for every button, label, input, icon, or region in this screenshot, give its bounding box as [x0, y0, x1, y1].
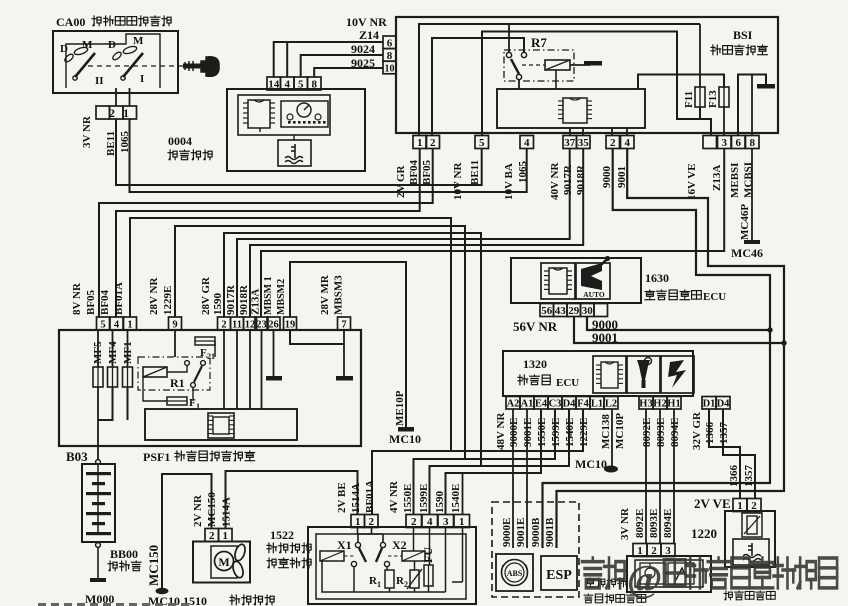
- relay R7 switch contacts: [506, 52, 511, 57]
- svg-text:23: 23: [256, 320, 267, 331]
- wire L2 to MC10 ground: [611, 409, 613, 466]
- svg-text:0004: 0004: [168, 134, 192, 148]
- PSF1 inner module box: [145, 409, 297, 440]
- PSF1 internal ground bar 2: [336, 376, 353, 381]
- wire relay switch to inner module: [518, 80, 520, 90]
- svg-text:F: F: [200, 347, 207, 359]
- svg-text:CA00: CA00: [56, 15, 85, 29]
- MC150 ground dot: [156, 588, 169, 594]
- svg-text:MC138: MC138: [600, 414, 612, 449]
- cluster temperature gauge sub-box: [278, 140, 311, 166]
- ignition switch CA00 box: [53, 31, 178, 93]
- wire H3 8092E to pressure sensor: [645, 409, 647, 544]
- svg-text:AUTO: AUTO: [583, 290, 605, 299]
- svg-text:Z14: Z14: [359, 28, 379, 42]
- svg-text:2V VE: 2V VE: [694, 496, 731, 511]
- svg-text:1514A: 1514A: [350, 483, 362, 513]
- wire BF04 feed inside BSI: [419, 24, 700, 136]
- svg-text:M: M: [133, 35, 144, 47]
- wire BE11 bus: [116, 119, 482, 185]
- svg-text:BB00: BB00: [110, 547, 138, 561]
- wire F11 branch vertical: [699, 24, 701, 87]
- svg-text:28V GR: 28V GR: [200, 276, 212, 315]
- svg-text:48V NR: 48V NR: [495, 412, 507, 450]
- wire R1 area stubs: [167, 365, 187, 372]
- ignition switch inner outline: [66, 34, 160, 88]
- fuse MF4: [108, 367, 118, 387]
- wire H4 staircase: [446, 409, 542, 515]
- svg-text:3V NR: 3V NR: [81, 115, 93, 148]
- svg-text:29: 29: [568, 305, 580, 317]
- battery BB00 box: [82, 464, 115, 542]
- wire 9018R bus: [250, 149, 583, 318]
- X switch top contacts: [355, 542, 360, 547]
- wire ignition box to connector: [115, 88, 117, 106]
- svg-text:R7: R7: [531, 35, 547, 50]
- BSI intelligent control box: [396, 17, 778, 133]
- wire pin9 into R1 area: [174, 330, 176, 357]
- svg-text:56V NR: 56V NR: [513, 319, 558, 334]
- svg-text:1: 1: [459, 516, 465, 528]
- wire MBSM2 to MC10 ground: [290, 262, 406, 427]
- svg-text:R1: R1: [170, 376, 185, 390]
- temp sensor 1220 box: [725, 511, 775, 567]
- wire F21 to switch: [214, 341, 216, 357]
- thermistor symbol box: [742, 513, 762, 537]
- wire MCBSI to MC46 ground: [751, 149, 753, 241]
- label transmission ECU text: [645, 290, 655, 300]
- 1320 injector icon box: [627, 356, 660, 393]
- dash links X1 X2: [344, 555, 355, 557]
- svg-text:9017R: 9017R: [225, 284, 237, 315]
- svg-text:6: 6: [387, 38, 393, 50]
- wire 9000 from transmission ECU: [587, 316, 770, 330]
- cluster pins 14 4 5 8: [267, 77, 281, 90]
- wire pins 2 11 12 23 into inner module: [223, 330, 225, 409]
- fan connector pins 2 1: [205, 529, 219, 542]
- svg-text:3: 3: [721, 137, 727, 149]
- 1630 IC chip symbol: [541, 263, 575, 299]
- svg-text:1357: 1357: [743, 465, 755, 488]
- svg-text:5: 5: [298, 79, 304, 91]
- svg-text:H3: H3: [639, 399, 652, 410]
- pin 6 box: [383, 36, 396, 49]
- svg-text:2: 2: [109, 106, 115, 120]
- wire BE11 feed inside BSI: [482, 32, 700, 137]
- watermark text band: [582, 558, 625, 588]
- svg-text:56: 56: [541, 305, 553, 317]
- wire cluster inner connections: [293, 135, 295, 140]
- engine ECU 1320 box: [503, 351, 693, 396]
- fuse MF1: [123, 367, 133, 387]
- wire 9001 from transmission ECU: [574, 316, 784, 343]
- wire relay contact D drop: [508, 24, 510, 52]
- wire F11 bottom to 16V VE pin: [700, 107, 711, 136]
- fuse MF5: [93, 367, 103, 387]
- wire BSI pins 37 35 stubs to inner module: [569, 128, 571, 136]
- 1522 internal wires: [353, 566, 355, 592]
- svg-text:MBSM3: MBSM3: [333, 275, 345, 315]
- pressure sensor connector pins 1 2 3: [633, 544, 647, 557]
- svg-text:11: 11: [232, 320, 242, 331]
- svg-text:ESP: ESP: [546, 568, 572, 583]
- svg-text:9001E: 9001E: [522, 418, 534, 447]
- wires 1522 left pins into box: [357, 527, 359, 534]
- svg-text:9: 9: [172, 320, 177, 331]
- fan blades: [233, 543, 247, 562]
- svg-text:8V NR: 8V NR: [71, 282, 83, 315]
- fuse F13: [719, 87, 729, 107]
- svg-text:II: II: [95, 75, 104, 87]
- svg-text:MC150: MC150: [146, 545, 161, 586]
- pin 8 box: [383, 49, 396, 62]
- svg-text:1550E: 1550E: [402, 484, 414, 513]
- wire 1229E bus: [175, 226, 465, 459]
- svg-text:9001E: 9001E: [515, 518, 527, 547]
- svg-text:9001B: 9001B: [544, 517, 556, 547]
- wire A2 9000E to ABS: [512, 409, 514, 548]
- wire inner module to F13: [638, 75, 724, 90]
- svg-text:Z13A: Z13A: [711, 165, 723, 191]
- label engine ECU text: [518, 375, 528, 385]
- BSI inner module box: [497, 89, 645, 128]
- svg-text:1: 1: [123, 106, 129, 120]
- svg-text:9000E: 9000E: [501, 518, 513, 547]
- svg-text:FU: FU: [421, 547, 435, 563]
- svg-text:2: 2: [209, 530, 215, 542]
- 1522 module box: [308, 527, 476, 604]
- svg-text:Z13A: Z13A: [250, 289, 262, 315]
- switch arm I: [123, 53, 143, 77]
- svg-text:2: 2: [411, 516, 417, 528]
- wire 1514A fan to 1522: [226, 471, 358, 529]
- svg-text:C3: C3: [549, 399, 562, 410]
- svg-text:14: 14: [268, 79, 280, 91]
- thermometer icon in cluster: [285, 144, 303, 164]
- svg-text:10: 10: [385, 64, 395, 75]
- wires pins to MF fuses: [97, 330, 99, 367]
- svg-text:2V BE: 2V BE: [336, 482, 348, 513]
- svg-text:4: 4: [114, 320, 120, 331]
- relay X2 coil: [402, 551, 425, 561]
- 1522 inner box: [316, 534, 466, 599]
- svg-text:8092E: 8092E: [634, 509, 646, 538]
- svg-text:28V NR: 28V NR: [148, 277, 160, 315]
- relay X1 coil: [320, 551, 344, 561]
- svg-text:MC150: MC150: [206, 492, 218, 527]
- fuse F21: [195, 337, 215, 345]
- label temperature sensor: [724, 591, 732, 600]
- wire H2 staircase: [414, 409, 556, 515]
- MC46 ground bar: [744, 240, 760, 244]
- svg-text:A2: A2: [507, 399, 520, 410]
- svg-text:BF01A: BF01A: [364, 480, 376, 513]
- svg-text:1599E: 1599E: [418, 484, 430, 513]
- svg-text:F13: F13: [707, 90, 719, 108]
- svg-text:3: 3: [443, 516, 449, 528]
- resistor R2 1522: [410, 570, 419, 588]
- wire BF04 bus: [116, 149, 420, 318]
- svg-text:@: @: [627, 558, 662, 600]
- svg-text:2: 2: [430, 137, 436, 149]
- ground bar in BSI near relay: [584, 61, 602, 66]
- wire relay coil to ground: [570, 64, 590, 66]
- wire H1 8094E: [673, 409, 675, 544]
- svg-text:BF04: BF04: [99, 289, 111, 315]
- svg-text:19: 19: [285, 320, 296, 331]
- svg-text:28V MR: 28V MR: [319, 274, 331, 315]
- battery terminal circle bottom: [96, 543, 101, 548]
- svg-text:MC10: MC10: [389, 432, 421, 446]
- svg-text:M: M: [218, 555, 229, 569]
- svg-text:1320: 1320: [523, 357, 547, 371]
- fuse F1: [167, 397, 187, 405]
- 1320 connector pin row: [506, 397, 520, 410]
- bottom cropped text artifacts: [38, 603, 189, 606]
- wire H2 8093E: [659, 409, 661, 544]
- svg-text:I: I: [140, 73, 144, 85]
- svg-text:3V NR: 3V NR: [619, 507, 631, 540]
- PSF1 inner IC chip: [208, 413, 234, 438]
- cluster IC chip symbol: [248, 100, 270, 128]
- battery cell plates: [97, 464, 99, 472]
- svg-text:MC46P: MC46P: [739, 204, 751, 240]
- wire H1 1550E-BF01A staircase: [372, 409, 583, 515]
- svg-text:2: 2: [610, 137, 616, 149]
- svg-text:MBSM 1: MBSM 1: [263, 276, 274, 315]
- svg-text:10V BA: 10V BA: [503, 163, 515, 200]
- 1522 bottom bus wire: [322, 561, 446, 592]
- wire PSF1 to battery: [97, 446, 99, 460]
- 1320 IC chip icon box: [593, 356, 626, 393]
- fan motor M circle: [215, 552, 234, 571]
- connector 3V NR pins 2 and 1: [96, 106, 110, 119]
- svg-text:40V NR: 40V NR: [549, 162, 561, 200]
- svg-text:X1: X1: [337, 538, 352, 552]
- fan motor box: [211, 546, 237, 578]
- svg-text:D4: D4: [717, 399, 731, 410]
- wire battery to M000 ground: [97, 547, 99, 578]
- ABS ESP dashed box: [492, 502, 579, 597]
- MC10 ground dot right: [604, 466, 618, 473]
- wire 1540E pin1 drop: [462, 473, 464, 515]
- ignition key symbol: [183, 57, 219, 77]
- svg-text:4: 4: [284, 79, 290, 91]
- svg-text:9018R: 9018R: [575, 164, 587, 195]
- svg-text:4: 4: [624, 137, 630, 149]
- 1630 gear shifter AUTO symbol: [576, 263, 610, 299]
- label AC refrigerant line1: [586, 578, 595, 587]
- svg-text:D4: D4: [563, 399, 577, 410]
- BSI inner IC chip symbol: [563, 98, 587, 123]
- key dashed link line: [88, 65, 184, 67]
- switch II M contact: [111, 45, 137, 61]
- svg-text:43: 43: [555, 305, 567, 317]
- svg-text:1590: 1590: [434, 491, 446, 514]
- svg-text:BF05: BF05: [85, 289, 97, 315]
- battery terminal circle top: [96, 460, 101, 465]
- svg-text:MC46: MC46: [731, 246, 763, 260]
- svg-text:H2: H2: [653, 399, 666, 410]
- svg-text:MC10: MC10: [575, 457, 607, 471]
- junction 9000: [768, 328, 772, 332]
- ESP box: [541, 556, 577, 590]
- switch I/II contact D left: [63, 46, 88, 63]
- svg-text:2: 2: [368, 516, 374, 528]
- svg-text:MBSM2: MBSM2: [276, 279, 287, 315]
- svg-text:B03: B03: [66, 449, 88, 464]
- wire BSI pins 9000 9001 stubs: [611, 128, 613, 136]
- svg-text:8: 8: [387, 50, 393, 62]
- svg-text:2V NR: 2V NR: [192, 494, 204, 527]
- wire BF05 to relay contact: [432, 38, 524, 136]
- svg-text:6: 6: [735, 137, 741, 149]
- wire BF05 bus: [99, 149, 433, 318]
- svg-text:4V NR: 4V NR: [388, 480, 400, 513]
- svg-text:4: 4: [427, 516, 433, 528]
- resistor R1 1522: [385, 570, 394, 588]
- svg-text:1540E: 1540E: [450, 484, 462, 513]
- svg-text:4: 4: [524, 137, 530, 149]
- svg-text:M: M: [82, 39, 93, 51]
- instrument cluster box 0004: [227, 89, 365, 171]
- PSF1 internal ground bar 1: [266, 376, 282, 381]
- R1 switch contacts: [185, 361, 190, 366]
- svg-text:F4: F4: [577, 399, 589, 410]
- wire 9000 staircase from BSI pin2: [543, 149, 771, 549]
- R1 switch arm: [194, 366, 202, 382]
- wire 1065 bus: [130, 119, 527, 192]
- relay R7 coil dashed link: [522, 64, 545, 66]
- wire pin19 pin7 to internal ground: [290, 330, 344, 344]
- svg-text:D1: D1: [703, 399, 716, 410]
- svg-text:MC10P: MC10P: [614, 413, 626, 449]
- svg-text:ECU: ECU: [556, 377, 579, 389]
- cooling fan 1510 box: [193, 542, 250, 583]
- svg-text:1590: 1590: [212, 293, 224, 316]
- wire A1 9001E to ABS: [526, 409, 528, 548]
- svg-text:1: 1: [417, 137, 423, 149]
- svg-text:L1: L1: [591, 399, 603, 410]
- wires MEBSI MCBSI to ground: [738, 75, 766, 137]
- wire Z13A bus: [261, 149, 724, 318]
- pin 10 box: [383, 61, 396, 74]
- svg-text:ECU: ECU: [703, 291, 726, 303]
- MC10 ground bar left: [398, 427, 414, 432]
- svg-text:8092E: 8092E: [641, 418, 653, 447]
- svg-text:12: 12: [245, 320, 256, 331]
- svg-text:5: 5: [479, 137, 485, 149]
- svg-text:32V GR: 32V GR: [691, 411, 703, 450]
- svg-text:9000: 9000: [601, 166, 613, 189]
- junction 9001: [782, 341, 786, 345]
- svg-text:D: D: [60, 43, 68, 55]
- 1522 left connector pins 1 2: [351, 515, 365, 528]
- wire F13 bottom to pin3: [723, 107, 725, 136]
- switch arm II: [75, 53, 95, 77]
- svg-text:1229E: 1229E: [162, 286, 174, 315]
- svg-text:X2: X2: [392, 538, 407, 552]
- cluster inner box: [238, 95, 330, 135]
- 1630 connector pins 56 43 29 30: [540, 304, 554, 317]
- wire 9024 cluster pin5 to pin8: [301, 55, 383, 77]
- svg-text:10V NR: 10V NR: [452, 162, 464, 200]
- svg-text:2: 2: [221, 320, 226, 331]
- svg-text:MEBSI: MEBSI: [729, 163, 741, 198]
- svg-text:9017R: 9017R: [562, 164, 574, 195]
- svg-text:BSI: BSI: [733, 28, 753, 42]
- 1522 pin drops inside: [413, 527, 415, 551]
- wire 1590 bus: [224, 233, 481, 466]
- svg-text:5: 5: [100, 320, 105, 331]
- wire 9017R bus: [237, 149, 570, 318]
- svg-text:30: 30: [582, 305, 594, 317]
- svg-text:9001: 9001: [592, 330, 618, 345]
- 1320 spark icon box: [661, 356, 694, 393]
- fuse FU: [424, 565, 433, 586]
- svg-text:7: 7: [341, 320, 346, 331]
- svg-text:E4: E4: [535, 399, 548, 410]
- svg-text:1220: 1220: [691, 526, 717, 541]
- relay R1 dash box: [138, 357, 210, 390]
- svg-text:1: 1: [127, 320, 132, 331]
- wire pin26 to internal ground: [273, 330, 275, 376]
- cluster gauge symbol: [281, 101, 328, 127]
- BSI bottom pin row: [413, 136, 427, 149]
- svg-text:10V NR: 10V NR: [346, 15, 387, 29]
- svg-text:8093E: 8093E: [655, 418, 667, 447]
- automatic transmission ECU 1630 box: [511, 258, 641, 303]
- relay R7 dash-dot box: [504, 50, 574, 81]
- wire D4 1357 staircase: [723, 409, 755, 499]
- svg-text:26: 26: [268, 320, 279, 331]
- svg-text:21: 21: [207, 352, 215, 361]
- X switch arms V: [359, 548, 366, 562]
- svg-text:1: 1: [222, 530, 228, 542]
- svg-text:9024: 9024: [351, 42, 375, 56]
- svg-text:H1: H1: [667, 399, 680, 410]
- svg-text:1514A: 1514A: [221, 497, 233, 527]
- svg-text:BF04: BF04: [408, 159, 420, 185]
- ABS logo: [502, 560, 528, 586]
- svg-text:8094E: 8094E: [662, 509, 674, 538]
- svg-text:ME10P: ME10P: [394, 390, 406, 426]
- M000 ground bar: [90, 578, 106, 582]
- svg-text:8: 8: [749, 137, 755, 149]
- wire MC150 from fan: [162, 474, 212, 589]
- svg-text:8094E: 8094E: [669, 418, 681, 447]
- svg-text:BF01A: BF01A: [113, 282, 125, 315]
- relay R1 coil: [143, 367, 167, 377]
- PSF1 top pin row: [97, 317, 110, 330]
- PSF1 engine bay control box: [59, 330, 361, 446]
- temp icon box: [733, 539, 769, 565]
- svg-text:1630: 1630: [645, 271, 669, 285]
- temp sensor connector pins 1 2: [733, 499, 747, 512]
- wire 9001 staircase from BSI pin4: [557, 149, 785, 549]
- svg-text:8093E: 8093E: [648, 509, 660, 538]
- wire H3 staircase: [430, 409, 570, 515]
- svg-text:BE11: BE11: [469, 160, 481, 185]
- fuse F11: [695, 87, 705, 107]
- svg-text:9000B: 9000B: [530, 517, 542, 547]
- wires MF fuse bottoms join: [98, 387, 113, 420]
- relay R7 switch arm: [511, 59, 519, 74]
- pressure sensor box: [627, 556, 711, 592]
- ground bar top right of BSI: [757, 84, 775, 89]
- svg-text:37: 37: [564, 137, 576, 149]
- svg-text:F11: F11: [683, 91, 695, 108]
